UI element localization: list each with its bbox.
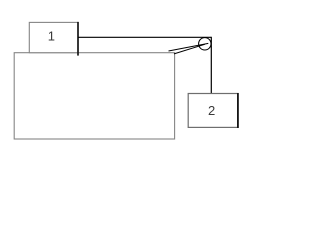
block 2 xyxy=(188,94,238,128)
block 1 right edge (thick) xyxy=(77,22,79,56)
string horizontal segment xyxy=(78,36,211,38)
svg-text:2: 2 xyxy=(208,103,215,118)
block 1 xyxy=(29,22,78,52)
pulley bracket lower arm xyxy=(174,44,205,54)
table (large block) xyxy=(14,53,174,139)
pulley xyxy=(199,38,211,50)
svg-text:1: 1 xyxy=(48,29,55,44)
pulley bracket upper arm xyxy=(169,43,209,51)
block 2 right edge (thick) xyxy=(237,93,239,128)
string vertical segment xyxy=(210,37,212,97)
